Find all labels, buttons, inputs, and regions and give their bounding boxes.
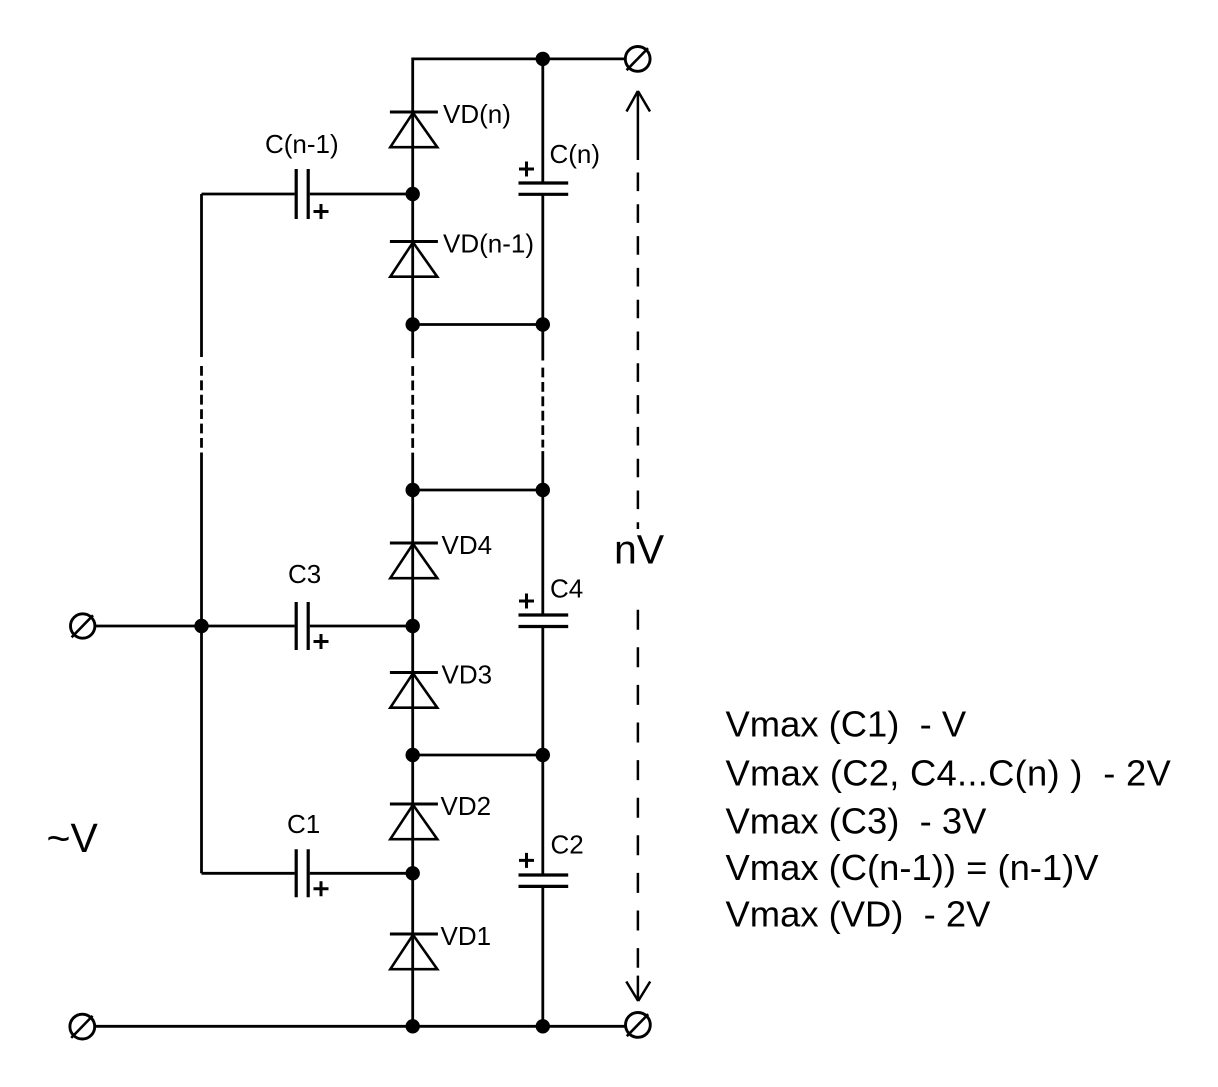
- svg-text:VD1: VD1: [441, 921, 492, 951]
- wire right vertical mid1: [541, 194, 544, 360]
- wire right vertical upper: [541, 59, 544, 183]
- formula text block: [726, 704, 1172, 935]
- capacitor C3: [296, 602, 328, 650]
- svg-text:Vmax (C1) - V: Vmax (C1) - V: [726, 704, 967, 745]
- diode VD4: [390, 543, 438, 578]
- wire left vertical upper: [200, 194, 203, 357]
- svg-text:~V: ~V: [47, 815, 99, 861]
- terminal top-right: [625, 47, 650, 72]
- wire C1 row: [202, 872, 413, 875]
- wire input row / C3 row: [95, 625, 413, 628]
- capacitor C(n-1): [296, 169, 328, 219]
- node ladder/C(n-1): [406, 187, 420, 201]
- svg-text:VD3: VD3: [442, 660, 493, 690]
- nV arrow down head: [626, 982, 650, 1002]
- nV arrow dashed lower: [637, 610, 640, 968]
- node right row3: [536, 483, 550, 497]
- node right bottom: [536, 1019, 550, 1033]
- node right top: [536, 52, 550, 66]
- node ladder/C3: [406, 619, 420, 633]
- svg-text:VD4: VD4: [442, 530, 493, 560]
- wire left vertical lower: [200, 453, 203, 874]
- wire right vertical mid3: [541, 627, 544, 876]
- node ladder row4: [406, 748, 420, 762]
- svg-text:nV: nV: [614, 527, 665, 573]
- svg-text:VD2: VD2: [441, 791, 492, 821]
- nV arrow dashed upper: [637, 173, 640, 530]
- node left/input: [194, 619, 208, 633]
- node right row2: [536, 317, 550, 331]
- terminal left input: [71, 614, 95, 638]
- wire node row 4: [413, 754, 543, 757]
- svg-text:C(n-1): C(n-1): [265, 129, 339, 159]
- capacitor C4: [519, 594, 569, 627]
- diode VD1: [390, 934, 438, 969]
- svg-text:Vmax (C(n-1)) = (n-1)V: Vmax (C(n-1)) = (n-1)V: [726, 847, 1100, 888]
- svg-text:VD(n): VD(n): [443, 99, 511, 129]
- diode VD(n): [390, 112, 438, 147]
- svg-text:C4: C4: [550, 574, 583, 604]
- capacitor C2: [519, 853, 569, 887]
- svg-text:C2: C2: [551, 830, 584, 860]
- wire ladder vertical lower: [411, 453, 414, 1027]
- diode VD2: [390, 804, 438, 839]
- wire ladder vertical dashed: [411, 366, 414, 448]
- wire right vertical lower: [541, 886, 544, 1026]
- svg-text:VD(n-1): VD(n-1): [443, 229, 534, 259]
- nV arrow down shaft solid: [637, 976, 640, 1001]
- wire top horizontal: [413, 58, 626, 61]
- wire C(n-1) row: [202, 193, 413, 196]
- nV arrow up shaft solid: [637, 91, 640, 160]
- diode VD(n-1): [390, 242, 438, 277]
- svg-text:Vmax (C2, C4...C(n) ) - 2V: Vmax (C2, C4...C(n) ) - 2V: [726, 753, 1172, 794]
- capacitor C1: [296, 849, 328, 897]
- wire right vertical mid2: [541, 451, 544, 615]
- terminal bottom-left: [70, 1014, 95, 1039]
- svg-text:Vmax (C3) - 3V: Vmax (C3) - 3V: [726, 801, 988, 842]
- node ladder/C1: [406, 866, 420, 880]
- wire bottom horizontal: [95, 1025, 626, 1028]
- wire ladder vertical upper: [411, 58, 414, 359]
- wire node row 3: [413, 489, 543, 492]
- svg-text:Vmax (VD) - 2V: Vmax (VD) - 2V: [726, 894, 992, 935]
- wire node row 2: [413, 323, 543, 326]
- wire right vertical dashed: [541, 368, 544, 448]
- node right row4: [536, 748, 550, 762]
- wire left vertical dashed: [200, 366, 203, 448]
- nV arrow up head: [626, 91, 650, 1001]
- terminal bottom-right: [626, 1013, 651, 1038]
- capacitor C(n): [519, 162, 569, 195]
- diode VD3: [390, 673, 438, 708]
- node ladder row2: [406, 317, 420, 331]
- node ladder bottom: [406, 1019, 420, 1033]
- svg-text:C(n): C(n): [550, 139, 601, 169]
- svg-text:C3: C3: [288, 559, 321, 589]
- node ladder row3: [406, 483, 420, 497]
- svg-text:C1: C1: [287, 809, 320, 839]
